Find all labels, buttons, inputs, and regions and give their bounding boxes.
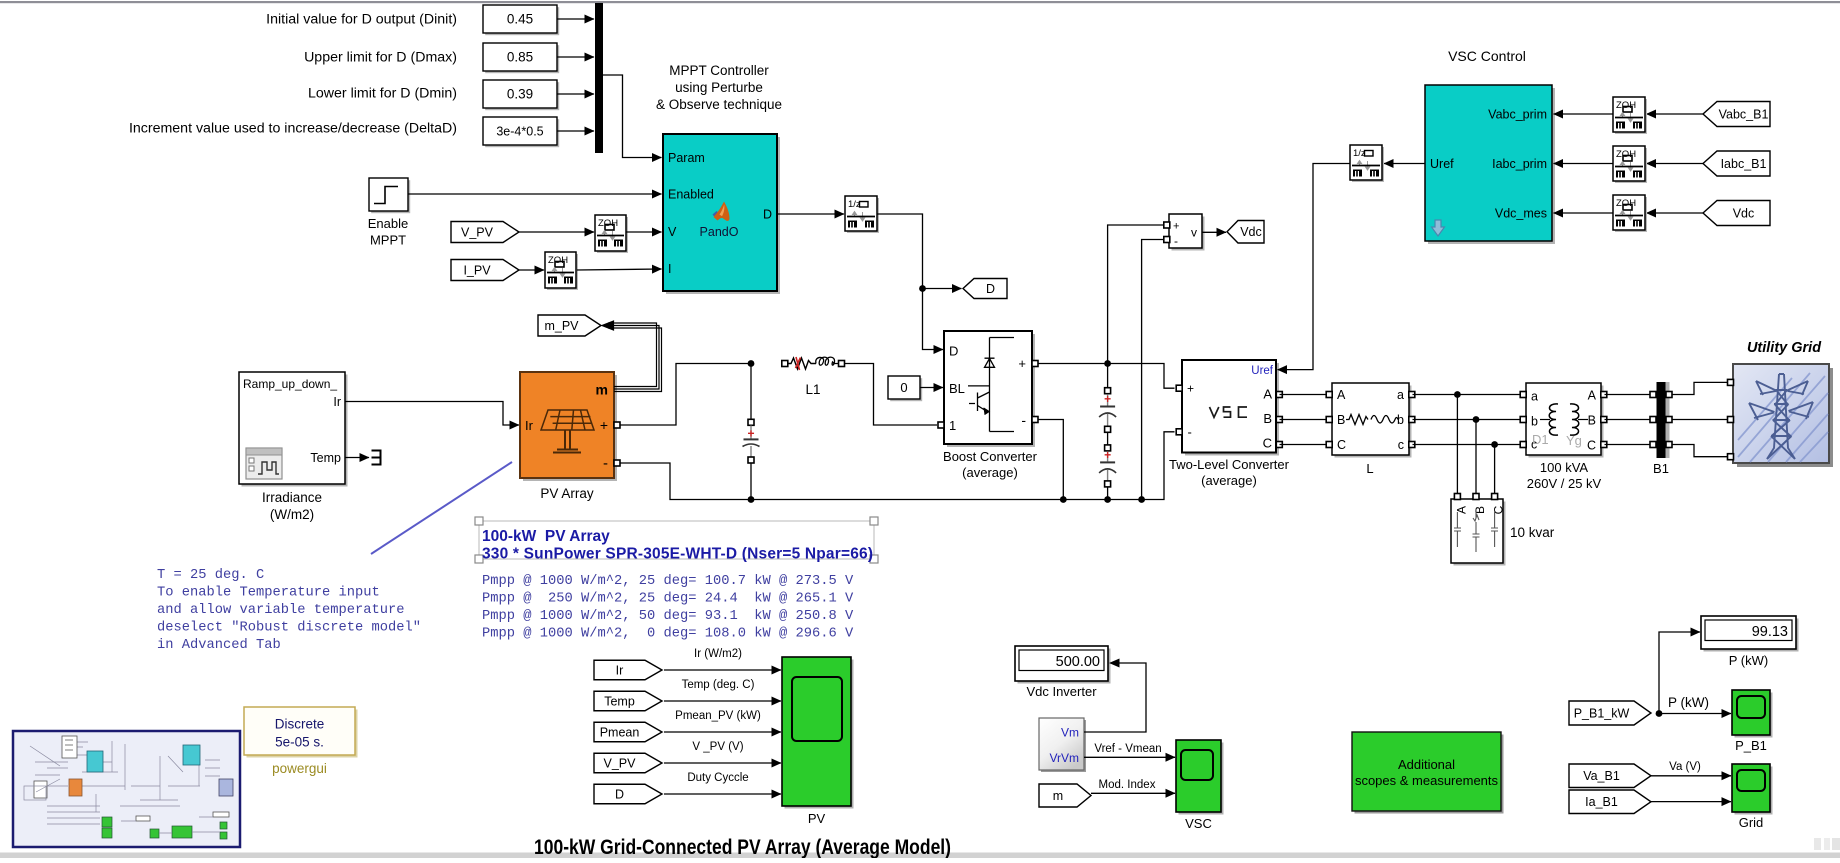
svg-text:MPPT: MPPT: [370, 233, 406, 248]
wire L c to transformer: [1413, 444, 1523, 446]
svg-text:330 * SunPower SPR-305E-WHT-D: 330 * SunPower SPR-305E-WHT-D (Nser=5 Np…: [482, 546, 873, 563]
subsystem Additional scopes & measurements: [1352, 732, 1504, 814]
rate transition ZOH (Vdc): [1613, 195, 1647, 232]
svg-text:Additional: Additional: [1398, 757, 1455, 772]
svg-text:Vdc Inverter: Vdc Inverter: [1026, 684, 1097, 699]
10 kvar capacitor bank block: [1451, 499, 1506, 566]
powergui block Discrete: [244, 707, 358, 776]
svg-text:C: C: [1337, 438, 1346, 452]
xfmr C pad: [1601, 442, 1607, 448]
svg-text:a: a: [1397, 388, 1404, 402]
wire B1 to grid B: [1672, 419, 1730, 421]
label MPPT Controller title: [656, 63, 782, 112]
svg-text:Boost Converter: Boost Converter: [943, 449, 1038, 464]
svg-text:P_B1_kW: P_B1_kW: [1574, 706, 1630, 720]
B1 right pad: [1666, 417, 1672, 423]
svg-text:To enable Temperature input: To enable Temperature input: [157, 585, 380, 601]
wire VrVm to VSC scope: [1084, 756, 1175, 758]
scope P_B1: [1732, 690, 1773, 753]
svg-text:B: B: [1588, 414, 1596, 428]
wire PV - down to bus: [620, 463, 748, 500]
wire Temp to terminator: [345, 457, 369, 459]
rate transition ZOH (I): [545, 252, 578, 290]
svg-text:ZOH: ZOH: [548, 255, 568, 266]
wire VSC A to L: [1280, 394, 1329, 396]
from tag Pmean: [594, 722, 662, 742]
Boost Converter block: [944, 331, 1035, 447]
svg-text:C: C: [1492, 505, 1506, 514]
node P junction: [1656, 710, 1663, 717]
svg-text:D: D: [949, 344, 958, 359]
svg-text:0: 0: [900, 380, 907, 395]
svg-text:-: -: [1188, 425, 1192, 440]
status bar bottom: [0, 838, 1840, 858]
svg-text:V: V: [668, 225, 677, 239]
rate transition 1/z (D): [845, 196, 879, 233]
PV + port: [614, 422, 620, 428]
svg-text:Pmean_PV (kW): Pmean_PV (kW): [675, 710, 761, 722]
node D junction: [919, 285, 926, 292]
svg-text:and allow variable temperature: and allow variable temperature: [157, 602, 405, 618]
grid C pad: [1728, 454, 1734, 460]
svg-text:Ir: Ir: [616, 663, 624, 677]
xfmr a pad: [1520, 392, 1526, 398]
wire mux to Param: [603, 75, 662, 158]
svg-text:Two-Level Converter: Two-Level Converter: [1169, 457, 1290, 472]
svg-text:Uref: Uref: [1251, 365, 1274, 377]
inductor L1 (series RL branch): [782, 357, 845, 397]
svg-text:260V / 25 kV: 260V / 25 kV: [1527, 476, 1602, 491]
label Boost Converter: [943, 449, 1038, 480]
svg-text:P (kW): P (kW): [1668, 695, 1709, 710]
svg-text:D1: D1: [1532, 432, 1549, 447]
wire Vdc to ZOH: [1647, 212, 1704, 214]
wire to D goto tag: [923, 288, 962, 290]
grid A pad: [1728, 379, 1734, 385]
svg-text:(average): (average): [1201, 473, 1257, 488]
svg-text:a: a: [1531, 390, 1538, 404]
goto tag D: [963, 279, 1007, 299]
svg-text:B: B: [1337, 413, 1345, 427]
svg-text:Ir: Ir: [333, 395, 341, 409]
B1 left pad: [1650, 442, 1656, 448]
svg-text:v: v: [1191, 226, 1197, 240]
annotation Pmpp table: [482, 573, 854, 642]
wire m to VSC scope: [1091, 792, 1175, 794]
L a pad: [1409, 392, 1415, 398]
wire 1/z down to VSC Uref: [1278, 164, 1351, 370]
svg-text:PandO: PandO: [700, 225, 739, 239]
svg-text:A: A: [1588, 389, 1597, 403]
svg-text:Ir (W/m2): Ir (W/m2): [694, 648, 742, 660]
svg-text:L: L: [1366, 461, 1373, 476]
svg-text:Vm: Vm: [1061, 726, 1079, 740]
svg-text:Enable: Enable: [368, 216, 408, 231]
svg-text:Va_B1: Va_B1: [1583, 769, 1620, 783]
rate transition ZOH (V): [595, 215, 628, 253]
PV - port: [614, 460, 620, 466]
svg-text:Discrete: Discrete: [275, 717, 325, 732]
MPPT controller block PandO: [663, 134, 780, 294]
svg-text:P (kW): P (kW): [1729, 653, 1768, 668]
svg-text:Uref: Uref: [1430, 157, 1454, 171]
wire DC+ up to voltage measurement: [1108, 225, 1166, 364]
goto tag m_PV: [538, 315, 601, 336]
svg-text:Vref - Vmean: Vref - Vmean: [1094, 743, 1161, 755]
10kvar B pad: [1473, 494, 1479, 500]
svg-text:VSC: VSC: [1185, 816, 1212, 831]
wire DC- up to voltage measurement: [1138, 240, 1165, 503]
wire I_PV to ZOH: [519, 269, 544, 271]
v- pad: [1164, 237, 1170, 243]
svg-text:T = 25 deg. C: T = 25 deg. C: [157, 567, 264, 583]
rate transition ZOH (Iabc): [1613, 146, 1647, 183]
B1 left pad: [1650, 417, 1656, 423]
terminator: [372, 451, 381, 465]
three-phase transformer 100 kVA block: [1526, 383, 1604, 458]
svg-text:1: 1: [949, 418, 956, 433]
node DC link top: [1104, 360, 1111, 367]
svg-text:scopes & measurements: scopes & measurements: [1355, 773, 1499, 788]
xfmr B pad: [1601, 417, 1607, 423]
svg-text:VSC Control: VSC Control: [1448, 48, 1526, 64]
svg-text:deselect "Robust discrete mode: deselect "Robust discrete model": [157, 620, 421, 636]
wire D output to 1/z: [777, 213, 844, 215]
scope PV: [782, 657, 854, 826]
mux (vector concatenate bar): [595, 3, 603, 153]
10kvar A pad: [1454, 494, 1460, 500]
L c pad: [1409, 442, 1415, 448]
svg-text:Lower limit for D (Dmin): Lower limit for D (Dmin): [308, 86, 457, 102]
VSC Control block: [1425, 85, 1555, 244]
xfmr c pad: [1520, 442, 1526, 448]
step source Enable MPPT: [368, 178, 410, 248]
annotation 100-kW PV Array: [482, 528, 873, 563]
from tag V_PV: [451, 222, 519, 243]
boost - pad: [1032, 417, 1038, 423]
svg-text:ZOH: ZOH: [1616, 198, 1636, 209]
three-phase RL branch L: [1332, 383, 1412, 458]
from tag Temp: [594, 691, 662, 711]
svg-text:10 kvar: 10 kvar: [1510, 525, 1555, 540]
svg-text:B: B: [1263, 411, 1272, 426]
wire boost - to bus: [1038, 420, 1063, 500]
L b pad: [1409, 417, 1415, 423]
svg-text:Ir: Ir: [525, 418, 534, 433]
node a junction: [1454, 391, 1461, 398]
capacitor C2 (DC link upper): [1099, 364, 1116, 433]
svg-text:100-kW Grid-Connected PV Array: 100-kW Grid-Connected PV Array (Average …: [534, 835, 951, 858]
wire 0 to BL: [920, 387, 943, 389]
svg-text:Vdc: Vdc: [1240, 225, 1262, 239]
capacitor C3 (DC link lower): [1099, 433, 1116, 503]
svg-text:Vabc_B1: Vabc_B1: [1719, 107, 1769, 121]
scope Grid: [1732, 764, 1773, 830]
B1 left pad: [1650, 392, 1656, 398]
wire Vm to display: [1084, 663, 1146, 732]
svg-text:(W/m2): (W/m2): [270, 507, 314, 522]
svg-text:Pmean: Pmean: [600, 725, 640, 739]
svg-text:+: +: [1104, 448, 1111, 462]
display P (kW): [1701, 616, 1799, 668]
L C pad: [1326, 442, 1332, 448]
svg-text:BL: BL: [949, 381, 965, 396]
wire Va_B1 to Grid scope: [1651, 775, 1731, 777]
B1 right pad: [1666, 392, 1672, 398]
Utility Grid block (tower picture): [1733, 364, 1833, 467]
negative DC bus wire: [748, 432, 1175, 500]
svg-text:MPPT Controller: MPPT Controller: [669, 63, 769, 78]
grid B pad: [1728, 417, 1734, 423]
wire xfmr B to B1: [1605, 419, 1650, 421]
wire VSC C to L: [1280, 444, 1329, 446]
svg-text:Pmpp @ 1000 W/m^2, 25 deg= 100: Pmpp @ 1000 W/m^2, 25 deg= 100.7 kW @ 27…: [482, 573, 854, 589]
svg-text:500.00: 500.00: [1056, 654, 1100, 670]
wire Iabc_B1 to ZOH: [1647, 163, 1704, 165]
svg-text:Iabc_prim: Iabc_prim: [1492, 157, 1547, 171]
wire: [557, 130, 594, 132]
annotation line to PV array: [371, 462, 512, 554]
VSC B pad: [1276, 417, 1282, 423]
wire Uref to 1/z: [1384, 163, 1425, 165]
svg-text:A: A: [1263, 387, 1272, 402]
display Vdc Inverter: [1015, 646, 1111, 699]
wire PV + to node: [620, 364, 749, 426]
wire: [557, 18, 594, 20]
svg-text:ZOH: ZOH: [1616, 149, 1636, 160]
svg-text:Pmpp @ 250 W/m^2, 25 deg= 24.: Pmpp @ 250 W/m^2, 25 deg= 24.4 kW @ 265.…: [482, 591, 854, 607]
B1 right pad: [1666, 442, 1672, 448]
rate transition ZOH (Vabc): [1613, 97, 1647, 134]
wire boost + to VSC: [1038, 364, 1175, 389]
wire P_B1_kW to P_B1 scope: [1659, 713, 1731, 715]
svg-text:D: D: [986, 282, 995, 296]
svg-text:Temp: Temp: [310, 451, 341, 465]
wire Ia_B1 to Grid scope: [1651, 801, 1731, 803]
window top border: [0, 1, 1840, 3]
L A pad: [1326, 392, 1332, 398]
svg-text:Initial value for D output (Di: Initial value for D output (Dinit): [266, 12, 457, 28]
wire L1 to boost port 1: [845, 364, 938, 426]
from tag I_PV: [451, 260, 519, 281]
svg-text:I_PV: I_PV: [463, 263, 491, 277]
from tag P_B1_kW: [1569, 701, 1651, 725]
svg-text:PV Array: PV Array: [540, 486, 594, 501]
svg-text:Iabc_B1: Iabc_B1: [1721, 157, 1767, 171]
VSC C pad: [1276, 442, 1282, 448]
model browser thumbnail: [13, 731, 240, 847]
svg-text:(average): (average): [962, 465, 1018, 480]
goto tag Vdc: [1227, 221, 1264, 244]
xfmr A pad: [1601, 392, 1607, 398]
wire VSC B to L: [1280, 419, 1329, 421]
svg-text:Vdc: Vdc: [1733, 206, 1755, 220]
svg-text:A: A: [1337, 388, 1346, 402]
wire c down to 10kvar: [1494, 445, 1496, 496]
svg-text:V _PV (V): V _PV (V): [692, 741, 743, 753]
constant DeltaD 3e-4*0.5: [483, 117, 559, 147]
boost port 1 pad: [938, 422, 944, 428]
boost + pad: [1032, 361, 1038, 367]
VSC A pad: [1276, 392, 1282, 398]
wire Pmean to PV scope: [664, 731, 781, 733]
svg-text:1/z: 1/z: [1353, 148, 1366, 159]
svg-text:V_PV: V_PV: [461, 225, 494, 239]
svg-text:& Observe technique: & Observe technique: [656, 97, 782, 112]
svg-text:Pmpp @ 1000 W/m^2, 50 deg= 93.: Pmpp @ 1000 W/m^2, 50 deg= 93.1 kW @ 250…: [482, 608, 854, 624]
10kvar C pad: [1492, 494, 1498, 500]
wire Vabc_B1 to ZOH: [1647, 113, 1704, 115]
svg-text:-: -: [1021, 412, 1026, 428]
wire ZOH to V port: [626, 231, 662, 233]
wire: [557, 93, 594, 95]
svg-text:Enabled: Enabled: [668, 188, 714, 202]
svg-text:+: +: [600, 417, 608, 433]
svg-text:B: B: [1473, 506, 1487, 514]
svg-text:-: -: [1174, 234, 1178, 248]
constant Dmax 0.85: [483, 43, 559, 73]
svg-text:Vabc_prim: Vabc_prim: [1488, 108, 1547, 122]
svg-text:C: C: [1263, 436, 1272, 451]
svg-text:+: +: [1018, 356, 1026, 371]
svg-text:L1: L1: [805, 382, 820, 397]
svg-text:D: D: [763, 208, 772, 222]
PV Array block: [520, 372, 617, 501]
svg-text:ZOH: ZOH: [598, 218, 618, 229]
svg-text:Pmpp @ 1000 W/m^2, 0 deg= 108: Pmpp @ 1000 W/m^2, 0 deg= 108.0 kW @ 296…: [482, 626, 854, 642]
svg-text:m: m: [596, 382, 608, 398]
svg-text:100-kW PV Array: 100-kW PV Array: [482, 528, 610, 545]
label Two-Level Converter: [1169, 457, 1290, 488]
svg-text:Duty Cyccle: Duty Cyccle: [687, 772, 748, 784]
wire P_B1_kW up to display: [1659, 632, 1700, 714]
from tag D: [594, 784, 662, 804]
VSC - pad: [1176, 429, 1182, 435]
svg-text:0.45: 0.45: [507, 12, 533, 27]
svg-text:1/z: 1/z: [848, 199, 861, 210]
wire Temp to PV scope: [664, 700, 781, 702]
xfmr b pad: [1520, 417, 1526, 423]
wire ZOH to Vdc_mes: [1554, 212, 1614, 214]
wire ZOH to I port: [577, 269, 662, 270]
wire ZOH to Iabc_prim: [1554, 163, 1614, 165]
from tag m: [1039, 784, 1091, 807]
svg-text:99.13: 99.13: [1752, 624, 1788, 640]
annotation selection box: [475, 517, 878, 563]
wire L b to transformer: [1413, 419, 1523, 421]
svg-text:D: D: [615, 787, 624, 801]
from tag Iabc_B1: [1703, 151, 1770, 176]
svg-text:m: m: [1053, 789, 1063, 803]
svg-text:P_B1: P_B1: [1735, 738, 1767, 753]
svg-text:Temp (deg. C): Temp (deg. C): [682, 679, 755, 691]
wire D to PV scope: [664, 793, 781, 795]
capacitor C1: [743, 364, 760, 503]
svg-text:PV: PV: [808, 811, 826, 826]
svg-text:Grid: Grid: [1739, 815, 1764, 830]
wire B1 to grid C: [1672, 445, 1730, 457]
svg-text:Irradiance: Irradiance: [262, 490, 322, 505]
bus bar B1: [1657, 382, 1670, 458]
wire a down to 10kvar: [1456, 395, 1458, 496]
node: [1060, 496, 1067, 503]
svg-text:Upper limit for D (Dmax): Upper limit for D (Dmax): [304, 50, 457, 66]
VSC + pad: [1176, 385, 1182, 391]
from tag Va_B1: [1569, 764, 1651, 788]
svg-text:Ia_B1: Ia_B1: [1585, 795, 1618, 809]
wire ZOH to Vabc_prim: [1554, 113, 1614, 115]
wire V_PV to ZOH: [519, 231, 594, 233]
svg-text:I: I: [668, 262, 671, 276]
node b junction: [1473, 416, 1480, 423]
wire Enable MPPT to Enabled: [408, 193, 662, 195]
svg-text:0.85: 0.85: [507, 50, 533, 65]
node C1 top: [748, 360, 755, 367]
svg-text:A: A: [1454, 506, 1468, 514]
svg-text:in Advanced Tab: in Advanced Tab: [157, 637, 281, 653]
svg-text:+: +: [1173, 221, 1179, 233]
svg-text:using Perturbe: using Perturbe: [675, 80, 763, 95]
svg-text:m_PV: m_PV: [544, 319, 579, 333]
from tag Vabc_B1: [1703, 102, 1770, 127]
from tag V_PV: [594, 753, 662, 773]
v+ pad: [1164, 222, 1170, 228]
wire xfmr A to B1: [1605, 394, 1650, 396]
svg-text:c: c: [1398, 438, 1404, 452]
svg-text:b: b: [1531, 415, 1538, 429]
wire Ir to PV scope: [664, 669, 781, 671]
wire L a to transformer: [1413, 394, 1523, 396]
wire xfmr C to B1: [1605, 444, 1650, 446]
svg-text:+: +: [1187, 382, 1194, 396]
from tag Ia_B1: [1569, 790, 1651, 814]
svg-text:VrVm: VrVm: [1049, 751, 1079, 765]
wire B1 to grid A: [1672, 382, 1730, 394]
svg-text:Temp: Temp: [604, 694, 635, 708]
wire V_PV to PV scope: [664, 762, 781, 764]
svg-text:Utility Grid: Utility Grid: [1747, 340, 1822, 356]
constant 0: [888, 376, 922, 401]
svg-text:b: b: [1397, 413, 1404, 427]
rate transition 1/z (Uref): [1350, 145, 1384, 182]
Two-Level Converter block VSC: [1182, 360, 1279, 456]
svg-text:5e-05 s.: 5e-05 s.: [275, 735, 324, 750]
svg-text:-: -: [603, 455, 608, 472]
scope VSC: [1176, 740, 1224, 831]
wire: [557, 56, 594, 58]
label 100 kVA: [1527, 460, 1602, 491]
from tag Vdc: [1703, 201, 1770, 226]
svg-text:Mod. Index: Mod. Index: [1099, 779, 1156, 791]
constant Dinit 0.45: [483, 5, 559, 35]
svg-text:Increment value used to increa: Increment value used to increase/decreas…: [129, 121, 457, 137]
svg-text:Ramp_up_down_: Ramp_up_down_: [243, 377, 337, 391]
svg-text:V_PV: V_PV: [604, 756, 637, 770]
from tag Ir: [594, 660, 662, 680]
svg-text:Vdc_mes: Vdc_mes: [1495, 207, 1547, 221]
wire 1/z down to boost D: [877, 214, 943, 350]
svg-text:powergui: powergui: [272, 761, 327, 776]
svg-text:3e-4*0.5: 3e-4*0.5: [496, 124, 543, 138]
L B pad: [1326, 417, 1332, 423]
svg-text:C: C: [1587, 439, 1596, 453]
voltage measurement block: [1169, 214, 1205, 251]
svg-text:0.39: 0.39: [507, 87, 533, 102]
node c junction: [1491, 441, 1498, 448]
svg-text:ZOH: ZOH: [1616, 100, 1636, 111]
wire m (3-line bus) to m_PV: [602, 321, 662, 392]
wire v to Vdc tag: [1202, 231, 1226, 233]
